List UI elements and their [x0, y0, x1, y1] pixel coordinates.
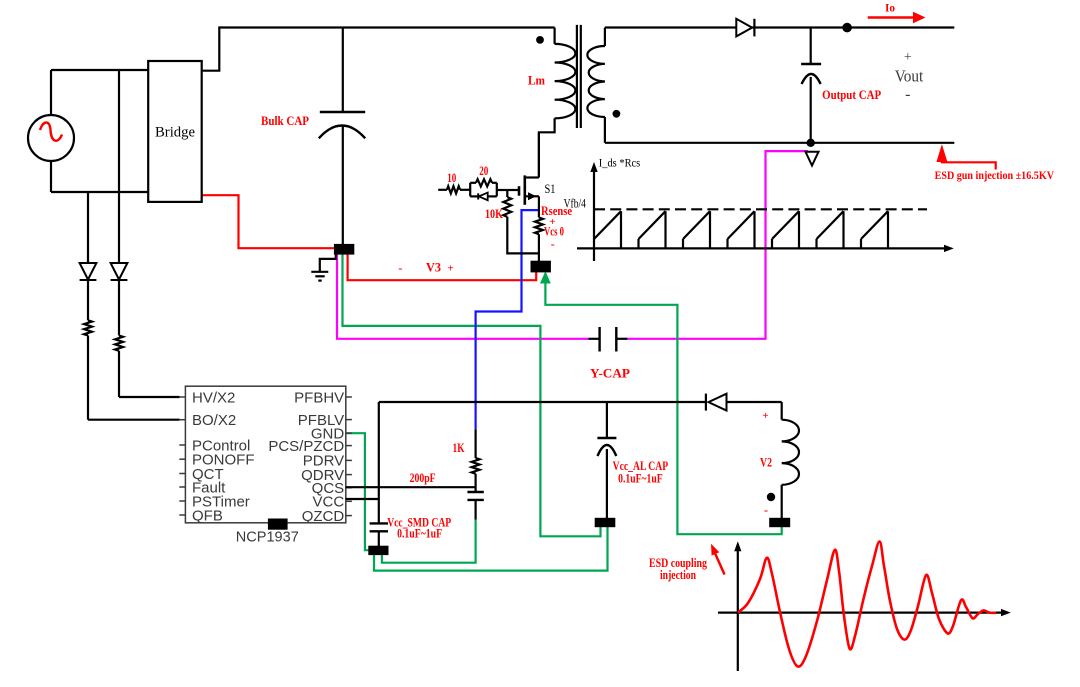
- svg-text:-: -: [551, 237, 555, 251]
- svg-text:20: 20: [479, 164, 488, 178]
- svg-text:Io: Io: [885, 1, 895, 15]
- svg-text:0.1uF~1uF: 0.1uF~1uF: [397, 527, 442, 541]
- svg-text:1K: 1K: [453, 441, 465, 455]
- svg-text:+: +: [447, 263, 453, 275]
- svg-text:BO/X2: BO/X2: [192, 412, 236, 429]
- svg-text:+: +: [904, 50, 912, 65]
- svg-text:Y-CAP: Y-CAP: [590, 366, 630, 380]
- svg-text:-: -: [905, 86, 910, 103]
- svg-text:0.1uF~1uF: 0.1uF~1uF: [618, 471, 663, 485]
- svg-text:HV/X2: HV/X2: [192, 389, 235, 406]
- svg-text:PFBHV: PFBHV: [294, 389, 344, 406]
- svg-text:injection: injection: [660, 568, 696, 582]
- svg-text:S1: S1: [545, 182, 556, 196]
- svg-text:-: -: [398, 261, 402, 275]
- svg-text:ESD gun injection ±16.5KV: ESD gun injection ±16.5KV: [935, 170, 1055, 182]
- svg-text:QFB: QFB: [192, 507, 223, 524]
- svg-text:200pF: 200pF: [410, 471, 436, 485]
- svg-text:V2: V2: [760, 455, 772, 469]
- svg-text:Vcs 0: Vcs 0: [544, 224, 564, 238]
- svg-text:-: -: [764, 503, 768, 517]
- svg-text:I_ds *Rcs: I_ds *Rcs: [599, 156, 641, 170]
- svg-text:Rsense: Rsense: [541, 204, 572, 218]
- svg-text:+: +: [762, 410, 768, 422]
- svg-text:V3: V3: [426, 261, 441, 275]
- svg-text:Output CAP: Output CAP: [822, 88, 881, 102]
- svg-text:Bridge: Bridge: [155, 124, 195, 140]
- svg-text:Bulk CAP: Bulk CAP: [261, 114, 309, 128]
- svg-text:QZCD: QZCD: [302, 508, 345, 525]
- svg-text:Vout: Vout: [895, 67, 924, 86]
- svg-text:NCP1937: NCP1937: [236, 529, 299, 546]
- svg-text:10K: 10K: [485, 207, 503, 221]
- svg-text:Lm: Lm: [528, 73, 546, 87]
- svg-text:10: 10: [447, 171, 456, 185]
